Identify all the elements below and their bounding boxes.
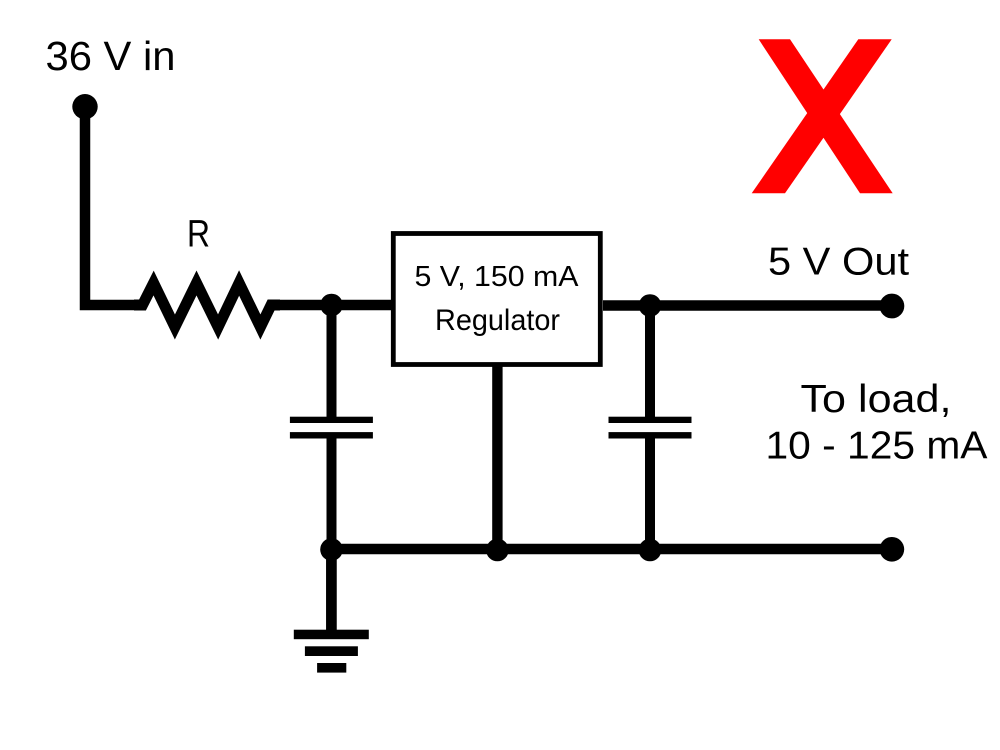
capacitor C2 (output capacitor) plates	[609, 417, 692, 439]
ground symbol (3 bars)	[294, 630, 369, 673]
regulator box U1	[393, 234, 600, 365]
wire: input vertical drop and horizontal run to resistor	[85, 106, 140, 305]
svg-text:R: R	[187, 214, 210, 256]
junction: ground rail at C2	[639, 539, 662, 562]
junction: ground rail at C1	[320, 538, 343, 561]
wire: bottom ground rail	[332, 544, 892, 554]
wire: regulator ground pin down to rail	[492, 364, 502, 549]
svg-text:36 V in: 36 V in	[46, 33, 176, 79]
wire: node B down to C2 top plate	[645, 305, 655, 417]
wire: resistor to regulator input, through node A	[274, 300, 391, 311]
resistor R (zigzag)	[134, 283, 280, 327]
capacitor C1 (input capacitor) plates	[290, 417, 373, 439]
svg-text:5 V, 150 mA: 5 V, 150 mA	[415, 261, 580, 293]
svg-text:Regulator: Regulator	[435, 304, 560, 337]
red X mark (wrong-design indicator)	[752, 39, 893, 193]
wire: C1 bottom plate down to ground rail	[327, 438, 337, 549]
wire: ground stub below rail	[326, 549, 337, 630]
terminal node: 5 V Out	[880, 294, 905, 319]
terminal node: 36 V input	[72, 94, 97, 119]
svg-text:5 V Out: 5 V Out	[768, 240, 909, 283]
svg-text:10 - 125 mA: 10 - 125 mA	[766, 425, 988, 468]
junction: node A (regulator input / C1 top)	[320, 294, 343, 317]
wire: C2 bottom plate down to ground rail	[645, 438, 655, 549]
wire: regulator output to 5 V Out terminal	[603, 300, 892, 310]
junction: ground rail at regulator pin	[486, 539, 509, 562]
wire: node A down to C1 top plate	[327, 305, 337, 417]
terminal node: load return (bottom right)	[880, 537, 905, 562]
svg-text:To load,: To load,	[801, 378, 952, 421]
junction: node B (regulator output / C2 top)	[639, 294, 662, 317]
